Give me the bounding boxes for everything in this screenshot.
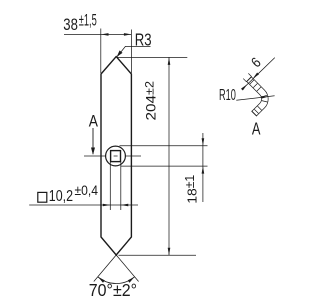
dim 6 arrows	[241, 84, 247, 90]
section arrowhead	[91, 148, 95, 156]
dim 38 arrows	[101, 33, 109, 36]
square symbol	[38, 192, 47, 202]
angle dim arc	[98, 277, 135, 284]
R3 arrowhead	[117, 50, 123, 57]
svg-text:R3: R3	[135, 30, 152, 50]
hatching	[250, 80, 268, 113]
detail view: bent tip section band	[243, 73, 267, 116]
dim 18 line	[202, 133, 204, 146]
svg-text:A: A	[89, 111, 99, 130]
dim 204±2 extension lines	[117, 57, 196, 255]
6 dim extension lines	[243, 79, 246, 82]
dim 38 line	[64, 33, 131, 35]
svg-text:±1,5: ±1,5	[79, 12, 97, 30]
R10 arrowhead	[261, 96, 269, 99]
svg-text:±0,4: ±0,4	[75, 182, 99, 198]
dim 18±1 extension lines	[120, 133, 208, 202]
dim 204 arrows	[168, 57, 171, 65]
R3 leader	[117, 46, 150, 56]
circle boss around hole	[106, 146, 126, 166]
svg-text:38: 38	[63, 16, 78, 34]
dim text 18±1 (rotated)	[183, 175, 200, 204]
dim 10,2 line	[29, 204, 138, 206]
svg-text:A: A	[252, 119, 261, 139]
band silhouette	[249, 79, 265, 113]
band bottom end cap	[252, 111, 257, 116]
svg-text:70°±2°: 70°±2°	[89, 280, 137, 300]
band top end cap	[246, 77, 251, 82]
dim 204 line	[168, 57, 170, 255]
dim text 204±2 (rotated)	[144, 81, 159, 121]
dim square 10,2 extension lines	[29, 161, 138, 210]
dim 38±1,5 extension lines	[64, 29, 131, 74]
R10 leader	[236, 96, 274, 101]
dim 10,2 arrows	[103, 204, 111, 207]
angle 70 extension lines	[94, 255, 139, 282]
band core (white)	[249, 79, 265, 113]
angle arc arrows	[98, 277, 105, 283]
dim 6 line (detail)	[242, 58, 275, 90]
centerline through hole	[84, 155, 141, 157]
svg-text:204±2: 204±2	[144, 81, 159, 121]
svg-text:10,2: 10,2	[49, 188, 73, 205]
dim 18 arrows	[202, 138, 205, 146]
section arrow A (leader)	[92, 128, 94, 154]
svg-text:R10: R10	[219, 87, 236, 104]
part body outline	[101, 57, 131, 255]
square hole	[111, 151, 121, 162]
dim text 6 (rotated)	[249, 55, 265, 71]
